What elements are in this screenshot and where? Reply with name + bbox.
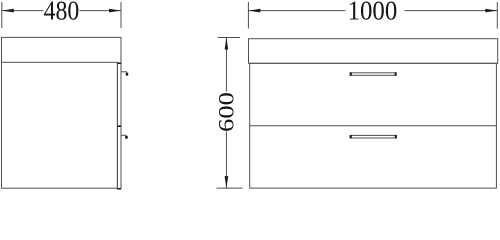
front view cabinet body [250, 63, 497, 188]
side view handle 2 bar section [125, 136, 128, 139]
dimension 480 arrow left [2, 9, 14, 13]
side view drawer front strip bottom cap [117, 188, 121, 190]
dimension 480 line right segment [80, 10, 122, 12]
side view handle 1 bar section [126, 73, 129, 76]
side view handle 2 bracket [121, 134, 127, 136]
dimension 480 arrow right [109, 9, 121, 13]
dimension 1000 extension line left [247, 2, 249, 29]
front view handle 2 left cap [350, 135, 352, 138]
dimension 480 extension line right [120, 2, 122, 28]
dimension 600 arrow top [225, 38, 229, 50]
front view handle 1 right cap [395, 72, 397, 75]
dimension 1000 line left segment [248, 10, 345, 12]
dimension 1000 extension line right [496, 2, 498, 29]
svg-text:1000: 1000 [348, 0, 398, 26]
side view cabinet body [2, 62, 118, 188]
svg-text:480: 480 [44, 0, 80, 26]
dimension 480 line left segment [2, 10, 44, 12]
front view drawer divider [250, 125, 497, 127]
side view drawer front strip top cap [117, 62, 121, 64]
dimension 600 extension line bottom [217, 187, 243, 189]
dimension 600 extension line top [218, 37, 241, 39]
side view handle 1 bracket [121, 71, 127, 73]
dimension 1000 arrow right [485, 9, 497, 13]
side view countertop [2, 37, 122, 63]
front view handle 1 [350, 73, 396, 76]
dimension 600 line bottom segment [225, 132, 227, 189]
svg-text:600: 600 [214, 92, 239, 132]
dimension 1000 line right segment [405, 10, 498, 12]
dimension 600 arrow bottom [225, 176, 229, 188]
front view handle 1 left cap [350, 72, 352, 75]
side view drawer front divider [117, 125, 121, 127]
side view drawer front strip [117, 63, 121, 189]
dimension 600 line top segment [225, 38, 227, 92]
front view handle 2 [350, 135, 397, 138]
dimension 480 extension line left [1, 2, 3, 28]
dimension 1000 arrow left [248, 9, 260, 13]
front view handle 2 right cap [395, 135, 397, 138]
front view countertop [249, 39, 498, 64]
